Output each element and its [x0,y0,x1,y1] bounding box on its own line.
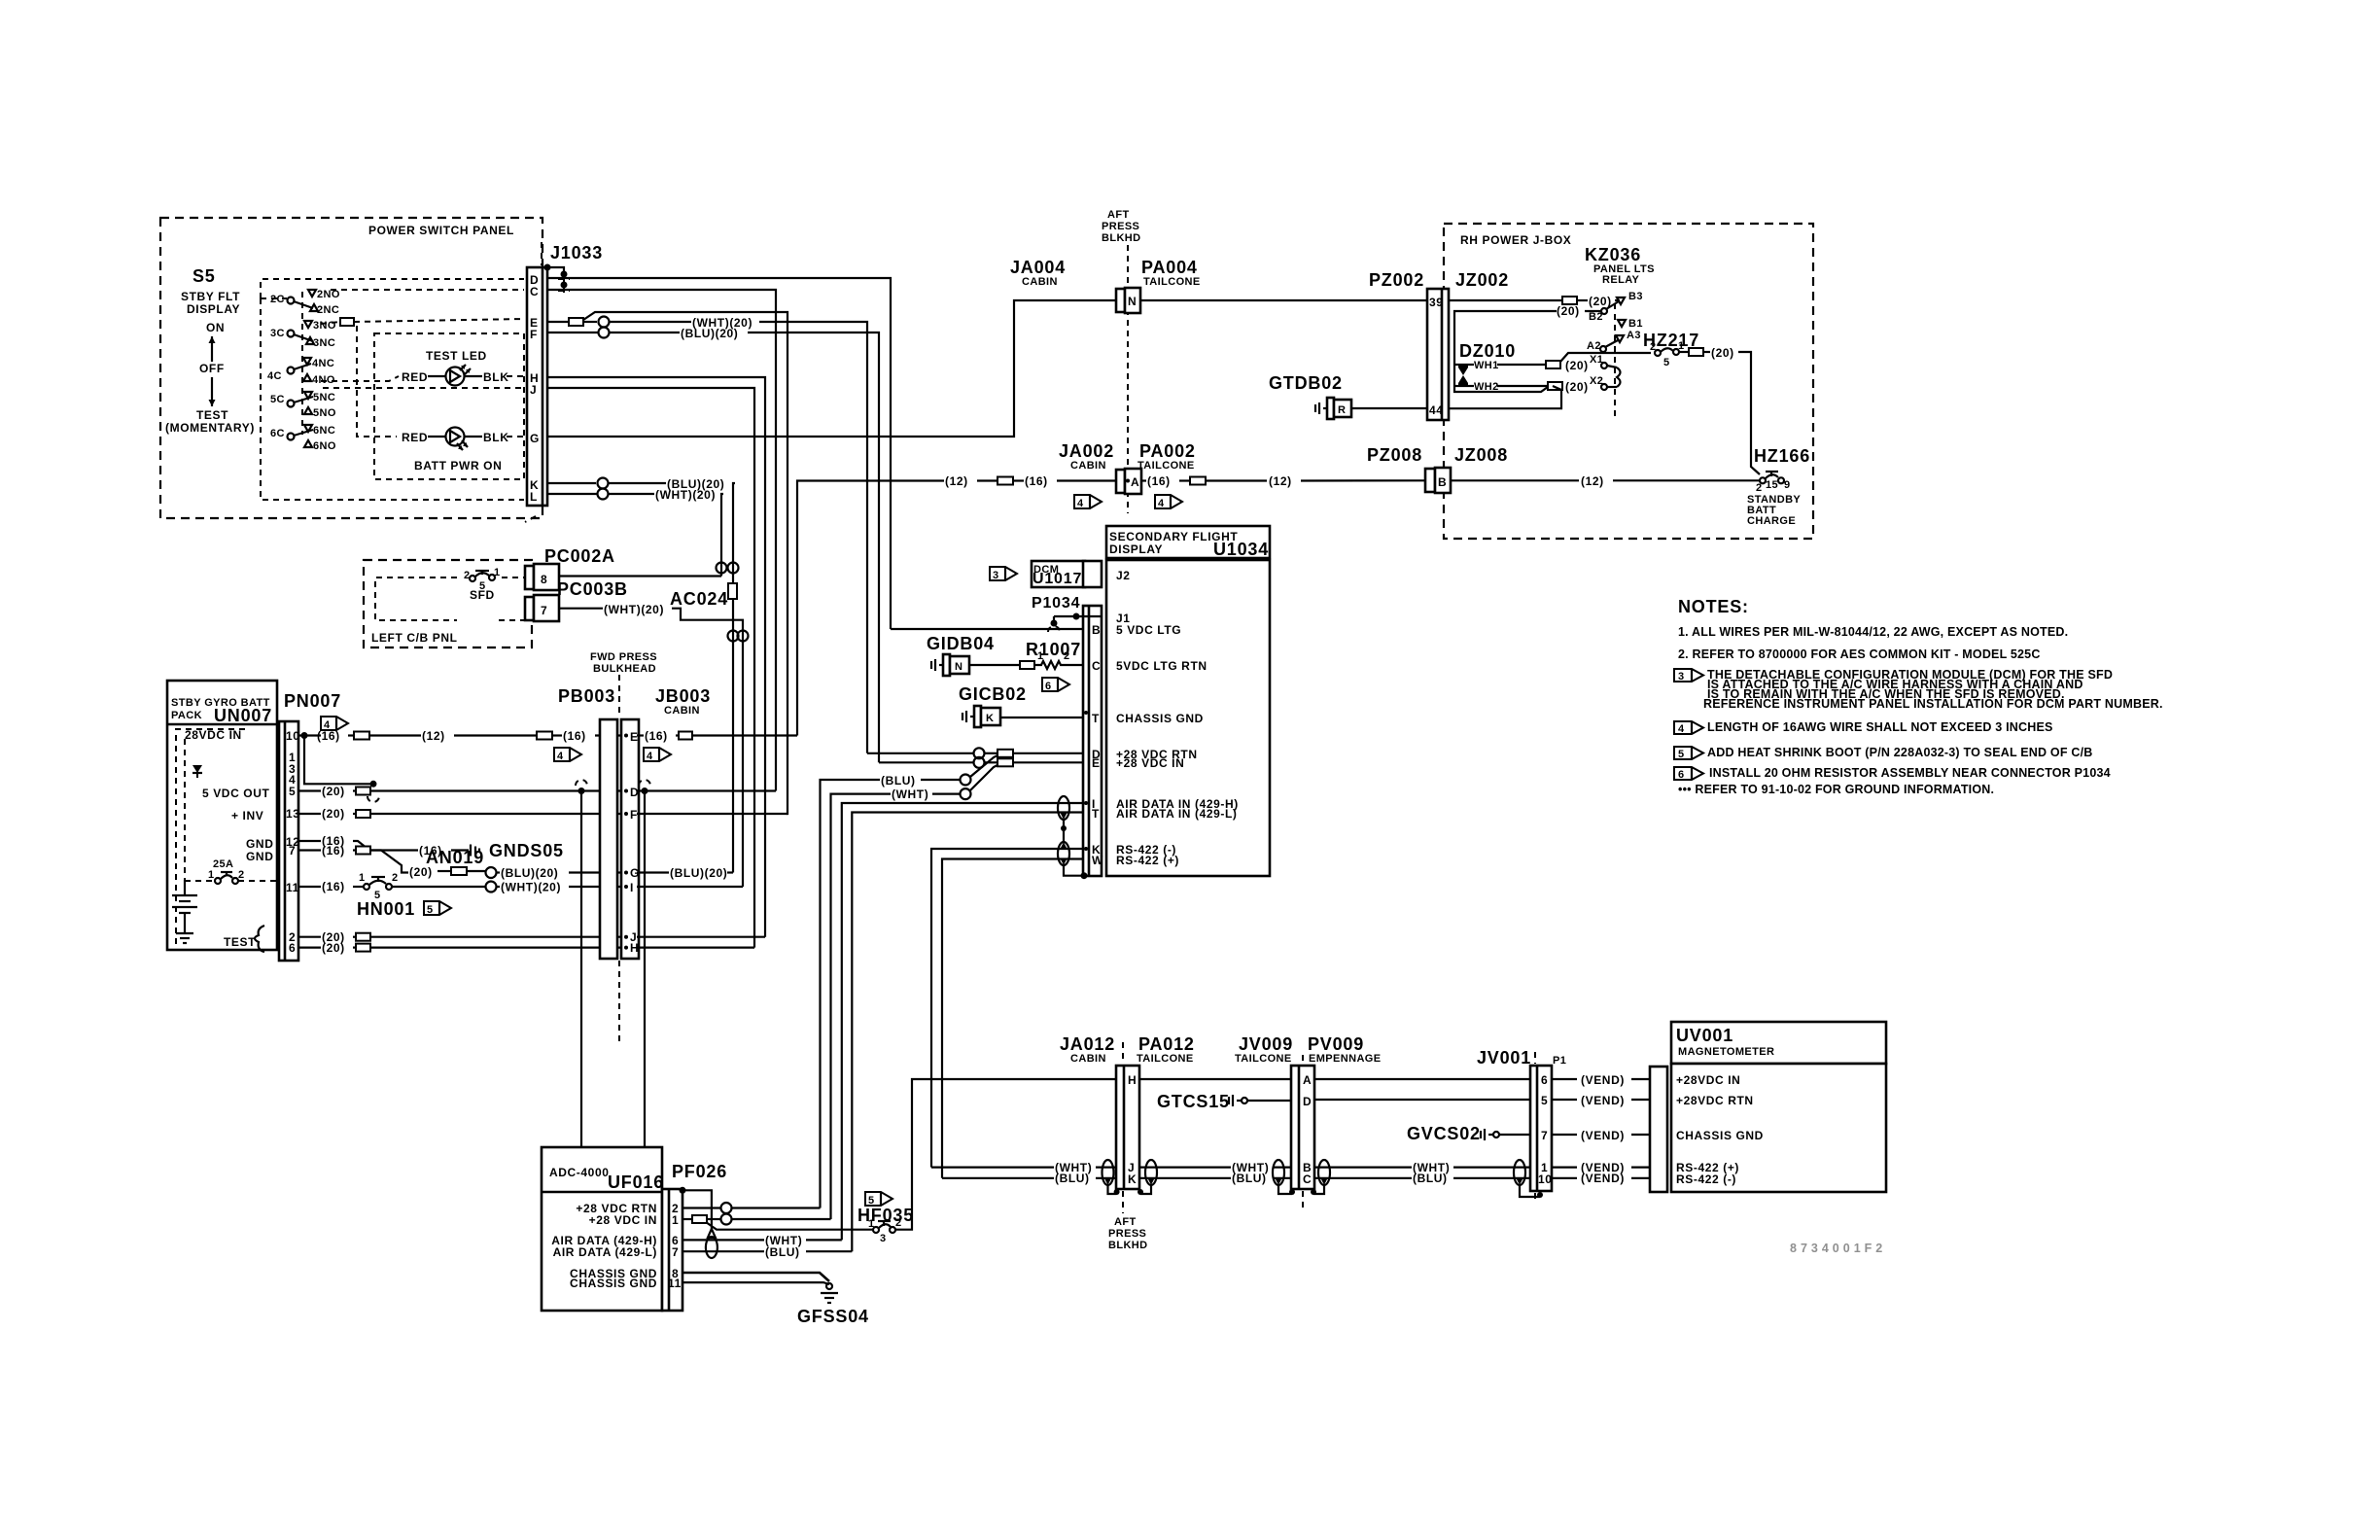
pin G [624,871,628,875]
svg-text:(20): (20) [322,941,345,955]
svg-text:BLKHD: BLKHD [1102,232,1141,244]
contact pole B2 [1601,308,1607,314]
svg-text:5NC: 5NC [313,392,335,403]
left C/B panel dashed box [364,560,532,647]
svg-text:6NC: 6NC [313,425,335,437]
svg-text:F: F [530,328,538,341]
svg-text:5NO: 5NO [313,407,336,419]
twisted pair 2/1 [721,1203,732,1213]
dashed wire 3NO to splice to E pin [321,322,340,324]
svg-text:PACK: PACK [171,710,202,721]
J1 top wire with shield dots [1054,615,1102,617]
shield oval left of JV009 [1273,1160,1284,1185]
svg-text:RED: RED [402,431,428,444]
svg-text:D: D [630,786,639,799]
circuit breaker SFD 5A [470,576,475,581]
svg-text:K: K [1128,1172,1137,1186]
BATT PWR ON LED symbol [428,436,446,437]
svg-text:6: 6 [1045,681,1052,692]
pin7 wire (BLU) [682,1250,764,1252]
connector JV009/PV009 bar [1291,1066,1314,1189]
ground stud GNDS05 [470,845,472,857]
wire to HZ166 [1738,352,1760,474]
svg-text:7: 7 [672,1245,679,1259]
svg-text:(12): (12) [1269,474,1292,488]
D row right of JB003 with shield taps [637,789,776,791]
svg-text:RELAY: RELAY [1602,274,1640,286]
svg-text:(BLU)(20): (BLU)(20) [670,866,727,880]
svg-text:T: T [1092,712,1100,725]
wire L: J1033-L (WHT)(20) down to PC002A [547,493,597,495]
svg-text:PF026: PF026 [672,1162,727,1181]
svg-text:(16): (16) [317,729,340,743]
splice left of JA002 [997,477,1013,485]
svg-text:4: 4 [557,751,564,762]
svg-text:39: 39 [1429,296,1444,309]
flag note5 [424,901,451,915]
svg-text:(16): (16) [563,729,586,743]
WHT row left of JA012 [931,1166,1054,1168]
svg-text:(VEND): (VEND) [1581,1094,1625,1107]
svg-text:PB003: PB003 [558,686,615,706]
svg-text:(BLU): (BLU) [1413,1172,1448,1185]
dashed vertical from splice to BATT LED [357,326,397,437]
svg-text:D: D [1303,1095,1312,1108]
svg-text:REFERENCE INSTRUMENT PANEL INS: REFERENCE INSTRUMENT PANEL INSTALLATION … [1703,697,2163,711]
svg-text:JA002: JA002 [1059,441,1114,461]
twisted pair E/F [599,317,610,328]
shield drain to bar bottom [1064,865,1083,876]
svg-text:R1007: R1007 [1026,640,1081,659]
GICB02 ground module [962,713,963,720]
svg-text:6NO: 6NO [313,440,336,452]
pin H [624,946,628,950]
dashed wire BLK to H pin [507,375,524,377]
connector JA004/PA004 [1116,289,1125,312]
relay linkage dashed [1614,303,1616,421]
D row JV009 to JV001 pin5 [1314,1099,1530,1101]
svg-text:(20): (20) [322,785,345,798]
UN007 box [167,681,277,950]
svg-text:(16): (16) [322,844,345,857]
dashed battery to breaker [185,880,215,882]
svg-text:(12): (12) [1581,474,1604,488]
wire GTCS15 to JV009 D [1247,1100,1291,1102]
pin11 wire to GFSS04 [682,1282,829,1284]
svg-text:4: 4 [1077,498,1084,509]
svg-text:6: 6 [289,941,296,955]
svg-text:EMPENNAGE: EMPENNAGE [1309,1053,1382,1065]
P1034 connector bar [1083,606,1102,876]
svg-text:LEFT C/B PNL: LEFT C/B PNL [371,631,458,645]
svg-text:E: E [630,730,639,744]
svg-text:(BLU): (BLU) [1232,1172,1267,1185]
G row right of JB003 [637,871,669,873]
switch mech dashed vertical [301,292,303,435]
pin I [624,885,628,889]
svg-text:4: 4 [647,751,653,762]
splice on 3NO-E dashed wire [340,318,354,326]
svg-text:13: 13 [286,807,300,821]
twisted pair BLU/WHT [961,775,971,786]
svg-text:JA012: JA012 [1060,1034,1115,1054]
VEND wire pin7 [1552,1134,1577,1136]
svg-text:B1: B1 [1628,318,1643,330]
svg-text:15: 15 [1766,479,1778,491]
svg-text:5VDC LTG RTN: 5VDC LTG RTN [1116,659,1207,673]
diagonal BLU to D splice [970,755,997,777]
svg-text:B2: B2 [1589,311,1603,323]
note 3 flag [1674,669,1703,682]
wire GIDB04 to R1007 [969,664,1020,666]
twisted pair G/I [486,867,497,878]
dashed box around LED area [374,333,524,479]
svg-text:JZ008: JZ008 [1454,445,1508,465]
svg-text:3: 3 [993,570,999,581]
svg-text:I: I [630,881,634,894]
shield oval I/T [1058,796,1069,820]
contact pole A2 [1600,346,1606,352]
pin2 TEST wire [298,936,321,938]
svg-text:3NC: 3NC [313,337,335,349]
shield oval K/W [1058,842,1069,865]
svg-text:(12): (12) [422,729,445,743]
svg-text:(16): (16) [1025,474,1048,488]
svg-text:5 VDC OUT: 5 VDC OUT [202,787,269,800]
S5 arrow ON-OFF [211,336,213,362]
svg-text:F: F [630,808,638,822]
wire GTDB02 to PZ002 [1351,407,1427,409]
svg-text:1. ALL WIRES PER MIL-W-81044/1: 1. ALL WIRES PER MIL-W-81044/12, 22 AWG,… [1678,625,2068,639]
svg-text:CHARGE: CHARGE [1747,515,1796,527]
internal dashed box [176,729,245,950]
svg-text:ON: ON [206,321,225,334]
svg-text:CABIN: CABIN [1022,276,1058,288]
dashed wire 2C to panel edge [261,297,287,299]
svg-text:2: 2 [1064,650,1070,662]
svg-text:WH2: WH2 [1474,381,1499,393]
DCM U1017 box [1032,561,1085,587]
wire GICB02 to pin T [1000,717,1083,718]
shell dot and shield drain [680,1187,686,1194]
svg-text:2: 2 [464,570,471,581]
svg-text:TEST: TEST [196,408,228,422]
svg-text:(MOMENTARY): (MOMENTARY) [165,421,255,435]
GTCS15 ground stub [1228,1097,1230,1104]
wire JA004 to PZ002 pin 39 [1140,299,1427,301]
pin11 wire to HN001 [298,886,321,888]
svg-text:GNDS05: GNDS05 [489,841,564,860]
AC024 splice (vertical) [728,583,737,599]
splice WH1 [1546,361,1560,368]
svg-text:C: C [1092,659,1101,673]
svg-text:GVCS02: GVCS02 [1407,1124,1481,1143]
svg-text:(WHT)(20): (WHT)(20) [655,488,716,502]
contact B1 [1618,320,1626,327]
pin I row AIR DATA 429-H [842,803,1083,1240]
note 6 flag [1674,767,1703,780]
svg-text:RS-422 (+): RS-422 (+) [1116,854,1179,867]
svg-text:44: 44 [1429,403,1444,417]
svg-text:L: L [530,490,538,504]
svg-text:3: 3 [1678,671,1685,682]
splice on B3 wire [1562,297,1577,304]
vendor dashed (JV001) [1534,1052,1536,1064]
svg-text:INSTALL 20 OHM RESISTOR ASSEMB: INSTALL 20 OHM RESISTOR ASSEMBLY NEAR CO… [1709,766,2111,780]
VEND wire pin6 [1552,1078,1577,1080]
pin F [624,812,628,816]
svg-text:2NC: 2NC [317,304,339,316]
svg-text:10: 10 [1538,1172,1553,1186]
svg-text:UV001: UV001 [1676,1026,1733,1045]
splice right of PA002 [1190,477,1206,485]
svg-text:DISPLAY: DISPLAY [187,302,240,316]
svg-text:28VDC IN: 28VDC IN [185,728,242,742]
svg-text:GTDB02: GTDB02 [1269,373,1343,393]
svg-text:10: 10 [286,729,300,743]
GIDB04 ground module [930,661,932,669]
svg-text:1: 1 [868,1218,875,1230]
shield verticals down to ADC box [580,791,582,1148]
svg-text:AC024: AC024 [670,589,728,609]
branch from pin10 to pin5 row [304,736,373,785]
TEST LED symbol [428,375,446,377]
wire J: J1033-J to PB003 H row [547,388,754,948]
svg-text:1: 1 [672,1213,679,1227]
PF026 connector bar [662,1189,682,1311]
wire G: J1033-G to JA004 riser [547,300,1118,437]
svg-text:TAILCONE: TAILCONE [1143,276,1201,288]
svg-text:H: H [1128,1073,1137,1087]
diagonal to fuse line [1560,353,1651,362]
svg-text:N: N [955,661,962,673]
svg-text:JA004: JA004 [1010,258,1066,277]
svg-text:LENGTH OF 16AWG WIRE SHALL NOT: LENGTH OF 16AWG WIRE SHALL NOT EXCEED 3 … [1707,720,2053,734]
pin W row RS-422 + [942,859,1083,1178]
wire E continues (WHT)(20) to SFD D riser [610,321,691,323]
svg-text:1: 1 [208,869,215,881]
DCM connector stub [1083,561,1102,587]
pin12 wire GND [298,840,321,842]
wire E: J1033-E with splice [547,321,569,323]
svg-text:MAGNETOMETER: MAGNETOMETER [1678,1046,1774,1058]
UV001 main box [1671,1064,1886,1192]
wire H: J1033-H to PB003 J row [547,377,765,937]
svg-text:A: A [1303,1073,1312,1087]
dashed wire 4NO to TEST LED red [321,376,399,381]
J1033 connector bar [527,267,547,506]
svg-text:(BLU)(20): (BLU)(20) [681,327,738,340]
ground GFSS04 [826,1283,832,1289]
svg-text:P1: P1 [1553,1055,1566,1067]
pin D row +28 VDC RTN [867,752,973,754]
internal breaker 25A [215,878,221,884]
svg-text:PZ002: PZ002 [1369,270,1424,290]
S5 arrow OFF-TEST [211,377,213,406]
flag note5 at HF035 [865,1192,892,1206]
svg-text:••• REFER TO 91-10-02 FOR GRO: ••• REFER TO 91-10-02 FOR GROUND INFORMA… [1678,783,1994,796]
fuse HZ217 [1655,350,1661,356]
wire riser from PN007 pin10 row [797,481,944,736]
ADC-4000 box [542,1147,662,1311]
svg-text:PA004: PA004 [1141,258,1198,277]
I row right of JB003 [637,886,743,888]
svg-text:1: 1 [359,872,366,884]
svg-text:4C: 4C [267,370,282,382]
svg-text:3C: 3C [270,328,285,339]
svg-text:ADD HEAT SHRINK BOOT (P/N 228A: ADD HEAT SHRINK BOOT (P/N 228A032-3) TO … [1707,746,2092,759]
svg-text:HZ166: HZ166 [1754,446,1810,466]
svg-text:J1033: J1033 [550,243,603,262]
dashed wire BLK to G pin [507,436,524,437]
VEND wire pin5 [1552,1099,1577,1101]
svg-text:RH POWER J-BOX: RH POWER J-BOX [1460,233,1571,247]
aft press blkhd dashed (bottom) [1122,1042,1124,1064]
svg-text:RED: RED [402,370,428,384]
svg-text:STBY FLT: STBY FLT [181,290,240,303]
svg-text:5: 5 [1678,749,1685,760]
note 4 flag [1674,721,1703,734]
svg-text:W: W [1092,854,1103,867]
pin T row AIR DATA 429-L [852,813,1083,1252]
inner dashed circuit [375,577,457,620]
svg-text:7: 7 [541,604,547,617]
svg-text:BLKHD: BLKHD [1108,1240,1148,1251]
svg-text:AIR DATA IN (429-L): AIR DATA IN (429-L) [1116,807,1238,821]
shield oval right of PA012 [1145,1160,1157,1185]
svg-text:TAILCONE: TAILCONE [1235,1053,1292,1065]
shield drain I/T to K/W [1061,825,1067,831]
switch linkage dashed box inner [261,279,524,298]
shield drain at J1033 top [544,264,551,271]
svg-text:(BLU): (BLU) [1055,1172,1090,1185]
pin10 wire to JB003 E [298,734,321,736]
svg-text:(WHT): (WHT) [892,787,928,801]
svg-text:+28VDC IN: +28VDC IN [1676,1073,1740,1087]
A row JV009 to JV001 pin6 [1314,1078,1530,1080]
svg-text:PRESS: PRESS [1102,221,1139,232]
SFD title box [1106,526,1270,558]
svg-text:AIR DATA (429-L): AIR DATA (429-L) [553,1245,657,1259]
svg-text:B3: B3 [1628,291,1643,302]
svg-text:4: 4 [1158,498,1165,509]
svg-text:SFD: SFD [470,588,495,602]
flag note6 [1042,678,1069,691]
svg-text:G: G [530,432,540,445]
bulkhead dashed line [618,675,620,717]
pin E row +28 VDC IN [879,761,973,763]
coil terminal X2 [1601,384,1607,390]
WHT row between PA012 and JV009 [1139,1166,1231,1168]
svg-text:CABIN: CABIN [664,705,700,717]
svg-text:2. REFER TO 8700000 FOR AES CO: 2. REFER TO 8700000 FOR AES COMMON KIT -… [1678,647,2041,661]
svg-text:CABIN: CABIN [1070,1053,1106,1065]
svg-text:GTCS15: GTCS15 [1157,1092,1230,1111]
svg-text:(20): (20) [1557,304,1580,318]
pin J [624,935,628,939]
svg-text:J: J [530,383,537,397]
HF035 output riser to JA012 H [895,1079,1116,1230]
AN019 splice [451,867,467,875]
svg-text:5C: 5C [270,394,285,405]
wire GVCS02 to JV001 pin7 [1499,1134,1530,1136]
svg-text:8734001F2: 8734001F2 [1790,1242,1886,1255]
svg-text:DISPLAY: DISPLAY [1109,542,1163,556]
wire D: J1033-D to SFD B row [547,278,891,629]
svg-text:UN007: UN007 [214,706,272,725]
svg-text:(BLU): (BLU) [765,1245,800,1259]
svg-text:5: 5 [289,785,296,798]
shield oval left of JA012 [1102,1160,1114,1185]
dashed wire J pin to 4NO [323,387,524,389]
svg-text:2: 2 [392,872,399,884]
wire F (BLU)(20) to SFD E riser [547,332,598,333]
svg-text:GICB02: GICB02 [959,684,1027,704]
pin T chassis gnd [1084,711,1088,715]
svg-text:7: 7 [1541,1129,1548,1142]
svg-text:A: A [1131,475,1139,489]
svg-text:R: R [1338,404,1346,416]
svg-text:U1034: U1034 [1213,540,1269,559]
connector PZ002/JZ002 bar [1427,289,1449,420]
svg-text:+28 VDC IN: +28 VDC IN [1116,756,1184,770]
connector JB003 bar [621,719,639,959]
svg-text:2: 2 [1650,341,1657,353]
WHT row between PV009 and JV001 [1314,1166,1412,1168]
note 5 flag [1674,747,1703,759]
svg-text:11: 11 [286,881,299,894]
svg-text:PZ008: PZ008 [1367,445,1422,465]
svg-text:7: 7 [289,844,296,857]
svg-text:POWER SWITCH PANEL: POWER SWITCH PANEL [368,224,514,237]
svg-text:(BLU)(20): (BLU)(20) [501,866,558,880]
splice before R1007 [1020,661,1034,669]
svg-text:(16): (16) [645,729,668,743]
svg-text:JZ002: JZ002 [1455,270,1509,290]
pin D [624,789,628,793]
svg-text:(20): (20) [409,865,433,879]
VEND wire pin1 [1552,1166,1577,1168]
ground symbol [176,932,193,934]
connector PZ008/JZ008 [1425,469,1435,492]
svg-text:DZ010: DZ010 [1459,341,1516,361]
splice after fuse [1689,348,1703,356]
shield oval right of PV009 [1318,1160,1330,1185]
H row right of JB003 [637,946,754,948]
svg-text:5: 5 [1663,357,1670,368]
svg-text:TEST LED: TEST LED [426,349,487,363]
svg-text:CHASSIS GND: CHASSIS GND [1116,712,1204,725]
svg-text:9: 9 [1784,479,1791,491]
svg-text:GND: GND [246,850,273,863]
svg-text:U1017: U1017 [1032,571,1082,587]
svg-text:A3: A3 [1627,330,1641,341]
svg-text:6C: 6C [270,428,285,439]
PC003B connector [525,597,534,620]
internal diode [192,765,202,773]
svg-text:(VEND): (VEND) [1581,1073,1625,1087]
svg-text:JV009: JV009 [1239,1034,1293,1054]
svg-text:(16): (16) [322,880,345,893]
PC002A connector [525,566,534,589]
wire pin39 to B3 [1449,299,1562,301]
svg-text:2: 2 [238,869,245,881]
svg-text:UF016: UF016 [608,1172,664,1192]
svg-text:11: 11 [668,1277,682,1290]
svg-text:KZ036: KZ036 [1585,245,1641,264]
junction dot on pin10 wire [301,732,308,739]
flag note4 above pin10 wire [321,717,348,730]
